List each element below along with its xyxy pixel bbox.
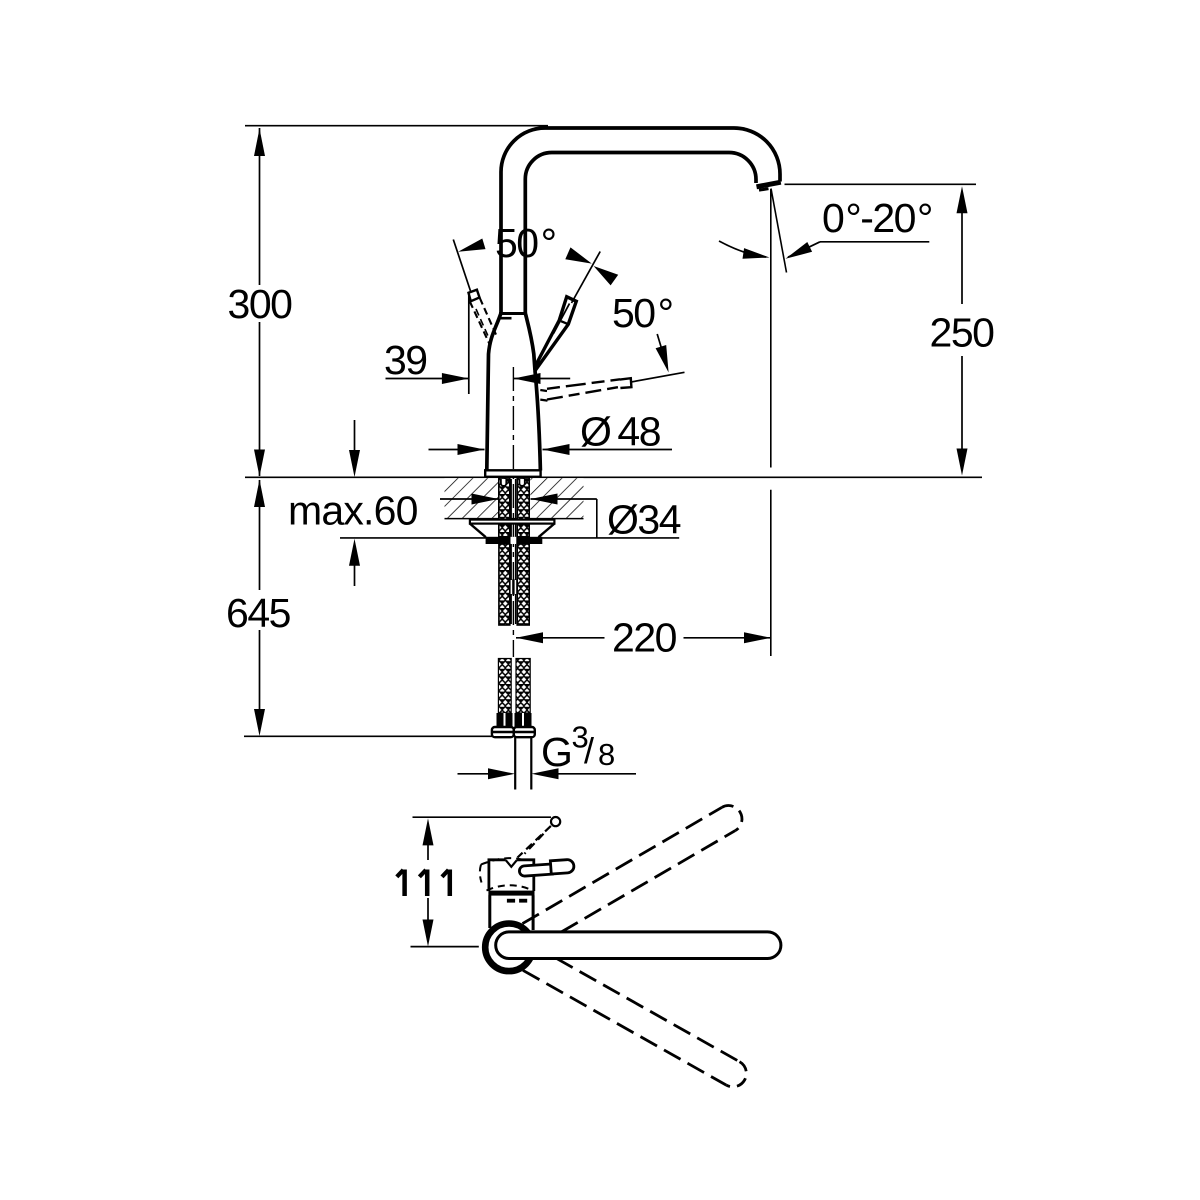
dim max60 bottom arrow: [349, 539, 360, 566]
lever raised dashed line 1: [518, 826, 551, 858]
dim G38 arrow left: [488, 768, 515, 779]
base plate: [485, 470, 540, 477]
handle inner highlight line: [554, 304, 570, 334]
dashed handle inner line: [476, 309, 488, 336]
stream tilted line: [771, 189, 787, 273]
dashed open handle lower edge: [547, 387, 620, 400]
handle extension line: [572, 252, 601, 304]
cap dashed dome top: [481, 858, 528, 864]
swing arc arrowhead: [743, 248, 770, 259]
dashed swivel arm lower: [523, 958, 746, 1087]
50 left arc arrowhead left: [458, 239, 485, 252]
svg-text:250: 250: [930, 310, 995, 356]
dim O34 arrow line left: [440, 498, 499, 500]
body vent dashes: [507, 899, 515, 903]
50 right leader line: [657, 334, 663, 355]
50 right arc arrowhead top: [594, 266, 619, 285]
hose end reference line: [244, 735, 493, 737]
svg-text:300: 300: [228, 281, 293, 327]
dim 111 arrow up: [423, 818, 434, 845]
dim 300 line top segment: [259, 128, 261, 285]
body right edge lower: [535, 371, 540, 471]
dim 645 arrow down: [254, 709, 265, 736]
spout outer outline: [501, 128, 780, 313]
counter top line: [245, 476, 982, 478]
dim 39 line right: [514, 378, 571, 380]
flange bar: [470, 520, 555, 524]
dim G38 line left: [458, 773, 491, 775]
threaded studs below nut: [499, 544, 510, 625]
dashed open handle tip bracket: [620, 378, 632, 388]
spout inner outline: [525, 153, 756, 314]
stream vertical line lower: [770, 490, 772, 656]
dim 111 arrow down: [423, 920, 434, 947]
dim 250 line bottom: [961, 356, 963, 449]
lever end cap top view: [550, 859, 574, 874]
hose lower right: [516, 659, 530, 714]
cap V notch: [506, 858, 517, 862]
cap dashed dome bottom: [487, 885, 531, 890]
dim O48 arrow right: [543, 444, 570, 455]
dim 39 line left: [386, 378, 469, 380]
dim 111 line bottom: [427, 898, 429, 921]
hatch left block: [445, 478, 499, 518]
hose lower left: [498, 659, 511, 714]
dim G38 arrow right: [532, 768, 559, 779]
dim 39 extension line vertical: [468, 293, 470, 394]
center joint block in slot: [509, 580, 517, 595]
dim 111 bottom extension line: [411, 946, 479, 948]
dim 645 line bottom segment: [259, 630, 261, 710]
hose ferrule left: [501, 479, 506, 486]
50 left arc arrowhead right: [565, 247, 592, 263]
dim G38 line right: [556, 773, 636, 775]
dim O34 arrow right: [531, 494, 558, 505]
top reference line (spout height): [245, 125, 548, 127]
50 right arc arrowhead bottom: [656, 345, 669, 373]
dim 111 top extension line: [413, 816, 552, 818]
svg-text:50°: 50°: [612, 290, 673, 336]
dim 645 arrow up: [254, 480, 265, 508]
dashed handle (tilted back) tip: [469, 290, 480, 302]
lever raised end circle: [551, 817, 560, 826]
threaded shank right wall: [517, 478, 529, 537]
swivel ring: [485, 924, 533, 972]
dashed handle blade left edge: [470, 302, 490, 345]
body left edge: [487, 313, 501, 471]
dim O48 arrow left: [458, 444, 485, 455]
svg-text:G: G: [541, 729, 571, 775]
dim 220 line left: [516, 637, 605, 639]
cap dashed dome left: [480, 865, 482, 883]
body center line: [512, 367, 514, 657]
joint line between spout and body: [499, 312, 527, 315]
lever rod top view: [519, 859, 575, 876]
dim 39 arrow right: [514, 373, 541, 384]
dim 220 line right: [684, 637, 772, 639]
dim 250 arrow up: [957, 186, 968, 213]
handle lever solid: [535, 297, 576, 371]
mounting nut: [486, 537, 543, 544]
G3/8 tail pipe: [514, 737, 516, 789]
spout arm top view: [496, 932, 781, 959]
body right edge upper: [525, 313, 535, 371]
dim max60 top arrow: [349, 450, 360, 477]
0-20 leader: [788, 242, 820, 257]
dim 220 arrow right: [744, 632, 771, 643]
dashed handle extension line: [453, 240, 470, 292]
dim 250 arrow down: [957, 449, 968, 476]
hose fitting right: [515, 713, 532, 727]
dim 300 arrow up: [254, 129, 265, 157]
dim max60 top arrow line: [354, 420, 356, 452]
svg-text:645: 645: [226, 590, 291, 636]
dim O48 line left: [429, 449, 485, 451]
dashed open handle upper edge: [547, 379, 620, 389]
stream vertical line upper: [770, 189, 772, 468]
hose ferrule right: [519, 479, 524, 486]
svg-text:220: 220: [612, 615, 677, 661]
dim 220 arrow left: [516, 632, 543, 643]
0-20 leader arrowhead: [786, 242, 813, 259]
body rect top view: [488, 895, 491, 928]
svg-text:8: 8: [598, 737, 615, 772]
dashed swivel arm upper: [523, 806, 742, 932]
flange cone left: [470, 524, 486, 538]
counter bottom line: [445, 518, 584, 520]
spout outlet face: [757, 182, 781, 187]
flange cone right: [539, 524, 555, 538]
hose fitting left: [497, 713, 513, 727]
svg-text:50°: 50°: [495, 220, 556, 266]
dashed open handle root ticks: [540, 390, 547, 391]
spout tip reference line: [785, 183, 977, 185]
dim O34 arrow left: [472, 494, 499, 505]
dim O34 step vertical: [596, 499, 598, 538]
hose tubes below nut: [510, 544, 512, 624]
dashed handle blade right edge: [480, 298, 498, 338]
body joint band: [488, 891, 534, 896]
dim O34 arrow line right: [531, 498, 597, 500]
svg-text:Ø34: Ø34: [607, 497, 681, 543]
dim 250 line top: [961, 212, 963, 304]
joint tick: [499, 317, 512, 320]
dim max60 bottom arrow line: [354, 565, 356, 586]
hose nut right: [514, 727, 535, 737]
hose tubes in shank: [510, 479, 512, 537]
label 111 (custom glyphs: Helvetica-style 1 without foot serif): [397, 870, 450, 897]
handle cap separation line: [561, 321, 568, 324]
spout aerator tip: [759, 189, 769, 191]
dashed open handle extension line: [632, 372, 685, 382]
dim 39 arrow left: [442, 373, 469, 384]
hose nut left: [492, 727, 514, 737]
swing arc: [719, 241, 766, 257]
dim O48 line right: [543, 449, 673, 451]
svg-text:max.60: max.60: [288, 488, 418, 534]
hatch right block: [530, 478, 583, 518]
dim 300 arrow down: [254, 450, 265, 477]
threaded shank left wall: [499, 478, 510, 537]
dim 111 line top: [427, 845, 429, 861]
0-20 underline: [820, 241, 929, 243]
svg-text:39: 39: [384, 337, 427, 383]
dim 645 line top segment: [259, 480, 261, 590]
svg-text:/: /: [584, 730, 594, 771]
cartridge cap top view: [489, 860, 534, 891]
dim 300 line bottom segment: [259, 322, 261, 476]
svg-text:Ø48: Ø48: [580, 409, 661, 455]
lever raised dashed line 2: [525, 834, 544, 854]
mounting bottom reference line: [340, 537, 679, 539]
